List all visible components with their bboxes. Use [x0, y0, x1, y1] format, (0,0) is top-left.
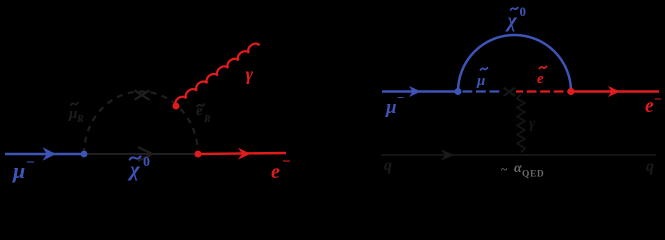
- svg-text:QED: QED: [522, 170, 544, 180]
- svg-text:R: R: [203, 114, 211, 125]
- svg-text:e: e: [645, 96, 654, 117]
- svg-text:μ: μ: [12, 158, 25, 183]
- svg-text:χ: χ: [505, 10, 518, 32]
- arrow on slepton dashed line (black): [504, 88, 516, 96]
- svg-text:R: R: [76, 114, 84, 125]
- node: muon-smuon vertex (blue dot): [81, 151, 88, 158]
- wire: quark line (black): [381, 150, 656, 161]
- svg-text:q: q: [646, 158, 654, 175]
- wire: neutralino arc (blue): [458, 35, 571, 92]
- wire: outgoing electron line (red, right): [571, 86, 659, 97]
- wire: photon propagator (black wavy vertical): [517, 94, 525, 153]
- svg-text:0: 0: [520, 4, 527, 19]
- wire: slepton dashed arc (black): [84, 92, 198, 154]
- wire: incoming muon line (blue, right): [382, 86, 458, 97]
- svg-text:χ: χ: [127, 157, 141, 181]
- wire: radiated photon (red wavy): [173, 41, 259, 106]
- svg-text:α: α: [514, 161, 522, 176]
- svg-text:γ: γ: [529, 116, 536, 132]
- label alpha_QED coupling: [501, 161, 544, 180]
- node: selectron-electron vertex (red dot): [195, 151, 202, 158]
- wire: neutralino line (black): [84, 147, 198, 161]
- svg-text:−: −: [26, 155, 35, 171]
- svg-text:~: ~: [501, 162, 508, 176]
- wire: selectron dashed segment (red): [516, 90, 571, 92]
- svg-text:e: e: [537, 71, 544, 87]
- arrow on slepton arc: [135, 90, 150, 100]
- svg-text:μ: μ: [68, 106, 77, 122]
- svg-text:γ: γ: [246, 64, 254, 84]
- node: left vertex (blue dot, right diagram): [455, 88, 462, 95]
- svg-text:e: e: [271, 161, 280, 183]
- svg-text:μ: μ: [385, 97, 397, 118]
- svg-text:0: 0: [143, 155, 150, 170]
- wire: smuon dashed segment (blue): [463, 90, 504, 92]
- svg-text:−: −: [397, 90, 404, 105]
- svg-text:q: q: [384, 157, 392, 174]
- wire: outgoing electron line (red): [198, 148, 286, 160]
- svg-text:μ: μ: [476, 73, 485, 89]
- svg-text:−: −: [654, 93, 662, 108]
- wire: incoming muon line (blue): [5, 147, 84, 161]
- node: right vertex (red dot, right diagram): [567, 88, 574, 95]
- node: photon emission vertex (red dot): [173, 103, 180, 110]
- svg-text:−: −: [282, 154, 291, 170]
